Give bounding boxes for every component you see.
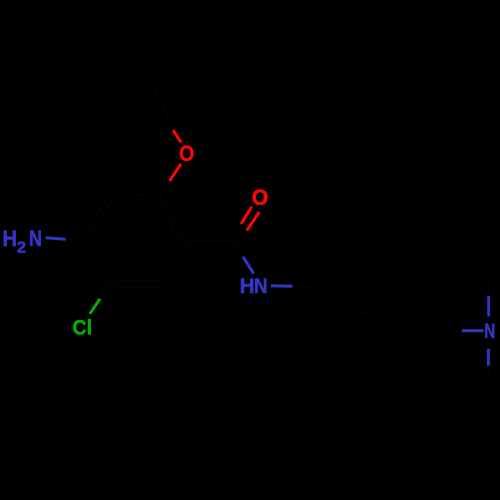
svg-text:N: N <box>29 226 42 251</box>
bond N2-CH3 up methyl dark half <box>487 278 489 297</box>
benzene ring bond C2-C3 <box>108 194 161 197</box>
bond N2-CH3 up nitrogen half (blue) <box>487 296 490 316</box>
bond N2-CH2 nitrogen half (blue) <box>462 329 484 332</box>
carbonyl C=O line B oxygen half (red) <box>247 212 259 231</box>
svg-text:H: H <box>240 274 255 298</box>
benzene ring bond C5-C6 <box>107 285 160 288</box>
benzene ring inner double bond C3=C4 <box>88 201 111 240</box>
bond O-CH3 methyl dark half <box>150 78 173 130</box>
svg-text:O: O <box>252 185 269 210</box>
svg-text:2: 2 <box>17 240 27 257</box>
bond N(H)-CH2 carbon half <box>293 285 317 288</box>
benzene ring inner double bond C1=C2 <box>158 201 180 242</box>
chain bond CH2-CH2 a <box>316 287 362 314</box>
carbonyl double bond line A carbon half <box>231 224 241 240</box>
bond O(methoxy)-C2 oxygen half (red) <box>170 164 181 181</box>
bond N2-CH3 down methyl dark half <box>487 366 489 384</box>
bond O(methoxy)-CH3 oxygen half (red) <box>173 130 181 142</box>
svg-text:O: O <box>179 141 194 166</box>
bond N2-CH3 down nitrogen half (blue) <box>487 349 490 366</box>
bond N(H)-C(=O) nitrogen half (blue) <box>243 257 254 274</box>
bond H2N-C4 nitrogen half (blue) <box>46 238 66 240</box>
benzene ring bond C3-C4 <box>82 195 109 239</box>
chain bond CH2-CH2 b <box>362 296 407 314</box>
benzene ring bond C4-C5 <box>82 240 108 287</box>
bond C(=O)-N(H) carbon half <box>235 242 244 257</box>
bond CH2-N2 carbon half <box>447 330 462 332</box>
bond N(H)-CH2 nitrogen half (blue) <box>271 284 293 287</box>
bond Cl-C5 chlorine half (green) <box>90 299 100 314</box>
svg-text:H: H <box>2 226 17 251</box>
benzene ring inner double bond C5=C6 <box>111 279 157 282</box>
carbonyl C=O line A oxygen half (red) <box>241 207 252 225</box>
carbonyl double bond line B carbon half <box>238 231 247 244</box>
svg-text:Cl: Cl <box>73 316 93 339</box>
benzene ring bond C1-C2 <box>161 195 186 242</box>
bond C1-C(=O) amide <box>187 241 235 243</box>
benzene ring bond C6-C1 <box>160 242 187 287</box>
bond C2-OMe carbon half <box>161 181 170 195</box>
bond C4-NH2 carbon half <box>66 238 82 240</box>
svg-text:N: N <box>484 319 495 343</box>
svg-text:N: N <box>254 274 268 298</box>
bond C5-Cl carbon half <box>100 286 107 299</box>
chain bond CH2-CH2 c <box>407 296 447 331</box>
